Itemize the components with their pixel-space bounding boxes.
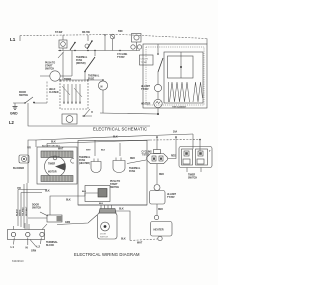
svg-text:CLOSED: CLOSED (49, 92, 59, 94)
svg-text:HI-LIMIT: HI-LIMIT (167, 194, 177, 196)
svg-text:BLK: BLK (99, 203, 104, 205)
svg-text:T'STAT: T'STAT (142, 154, 150, 157)
connector c (71, 158, 74, 163)
svg-text:FUSE: FUSE (76, 60, 83, 62)
svg-text:WHT: WHT (137, 243, 143, 245)
console bottom wire (78, 204, 147, 206)
svg-text:SWITCH: SWITCH (19, 95, 28, 97)
svg-text:PUSH TO: PUSH TO (45, 63, 55, 65)
wire door sw riser (50, 196, 85, 215)
push to start switch (85, 186, 110, 202)
svg-text:T'STAT: T'STAT (117, 56, 125, 59)
svg-text:BLK: BLK (51, 142, 56, 144)
switch blade centre (85, 57, 95, 71)
svg-text:DOOR: DOOR (100, 234, 107, 236)
timer motor contacts (82, 109, 92, 116)
svg-text:THERMAL: THERMAL (129, 167, 141, 170)
svg-text:PUSH TO: PUSH TO (110, 181, 120, 183)
svg-text:50M: 50M (118, 31, 123, 33)
coil bracket left (167, 82, 169, 102)
svg-text:ST-SW: ST-SW (55, 32, 63, 34)
svg-text:TERMINAL: TERMINAL (46, 241, 58, 244)
svg-text:START: START (45, 65, 53, 68)
svg-text:BLOWER: BLOWER (13, 167, 24, 170)
svg-text:YEL/RED: YEL/RED (23, 207, 25, 216)
motor terminal strip bottom (41, 176, 73, 182)
thermal fuse 2 (113, 161, 125, 173)
wire door sw to drum sw (57, 215, 97, 225)
wire blower riser (28, 140, 36, 183)
svg-text:MOTOR: MOTOR (48, 172, 57, 174)
switch S1 (59, 40, 67, 48)
svg-text:CYCLING: CYCLING (117, 54, 128, 56)
wire tstat down (156, 164, 158, 184)
hi-limit tstat (154, 185, 160, 191)
svg-text:FUSE: FUSE (129, 171, 136, 173)
wire w2 (47, 140, 150, 144)
svg-text:BLK: BLK (121, 239, 126, 241)
svg-text:ELECTRICAL WIRING DIAGRAM: ELECTRICAL WIRING DIAGRAM (74, 252, 140, 257)
heater element coils (170, 82, 190, 102)
svg-text:DOOR: DOOR (19, 92, 26, 94)
drive motor circle (45, 156, 66, 177)
terminal wires (25, 223, 29, 230)
timer contact box T (60, 81, 88, 109)
wire heater to door box (130, 239, 158, 241)
motor terminal strip top (41, 151, 73, 158)
svg-text:HELD: HELD (49, 89, 56, 91)
svg-text:BLK: BLK (101, 150, 106, 152)
svg-text:START: START (110, 183, 118, 186)
svg-text:T'STAT: T'STAT (141, 88, 149, 91)
svg-text:WHITE: WHITE (20, 209, 22, 216)
wire drop C (104, 35, 106, 51)
start contact circle (110, 34, 115, 39)
ground (14, 103, 16, 106)
svg-text:CYCL'G: CYCL'G (141, 59, 149, 61)
svg-text:Y/R: Y/R (27, 148, 31, 150)
svg-text:HEATER: HEATER (154, 229, 164, 232)
svg-text:30A: 30A (173, 131, 178, 134)
wire right feeders (193, 134, 200, 151)
wire oval to tstat (127, 160, 146, 164)
svg-text:M: M (101, 87, 103, 89)
drive motor box (37, 147, 77, 184)
svg-text:RED: RED (158, 209, 163, 211)
svg-text:RED: RED (159, 174, 164, 176)
drops to fuses (95, 140, 120, 156)
svg-text:RED/WHT: RED/WHT (26, 206, 28, 216)
console box (78, 141, 147, 206)
wire junction to heater column (100, 113, 158, 114)
svg-text:(DRYER): (DRYER) (76, 63, 86, 65)
door switch body (47, 215, 62, 222)
svg-text:BLK: BLK (113, 137, 118, 139)
svg-text:SWITCH: SWITCH (110, 187, 119, 189)
svg-text:L1: L1 (11, 245, 15, 249)
svg-text:WHT: WHT (58, 149, 64, 151)
svg-text:SWITCH: SWITCH (45, 69, 54, 71)
timer motor TM (62, 114, 77, 124)
harness horizontals (18, 190, 47, 193)
svg-text:BLACK: BLACK (15, 208, 18, 216)
svg-text:DR-SW: DR-SW (82, 32, 91, 34)
wire w1 top of wiring diagram (36, 134, 193, 140)
motor switch wedge (55, 163, 66, 171)
wire top L1 rail (19, 36, 21, 42)
motor switch M contacts (131, 45, 135, 49)
svg-text:RED: RED (171, 156, 176, 158)
svg-text:ELECTRICAL SCHEMATIC: ELECTRICAL SCHEMATIC (93, 127, 147, 132)
heater housing (164, 52, 203, 103)
svg-text:TIMER: TIMER (188, 175, 195, 177)
svg-text:WHT: WHT (86, 150, 91, 152)
svg-text:GRN: GRN (31, 251, 36, 253)
svg-text:L2: L2 (37, 245, 41, 249)
switch blade left (58, 52, 64, 59)
svg-text:THERMAL: THERMAL (76, 56, 88, 59)
wire mid rail (58, 50, 140, 52)
wire motor feed (71, 51, 73, 77)
terminal block (8, 230, 45, 240)
switch blade S2 (70, 43, 75, 51)
svg-text:DOOR: DOOR (32, 205, 39, 207)
heater box outer (143, 44, 207, 108)
svg-text:RED: RED (130, 158, 135, 160)
buzzer B1 (132, 34, 142, 43)
harness verticals (18, 183, 27, 229)
svg-text:L2: L2 (9, 120, 15, 125)
motor M2 (98, 81, 107, 90)
door switch S3 (85, 44, 89, 48)
svg-text:SWITCH: SWITCH (32, 208, 41, 210)
svg-text:FUSE: FUSE (79, 160, 86, 162)
wire L2 rail (28, 103, 150, 126)
svg-text:BLK: BLK (82, 191, 87, 193)
svg-text:SWITCH: SWITCH (100, 237, 108, 239)
heater body (151, 222, 173, 237)
svg-text:T'STAT: T'STAT (141, 61, 148, 64)
motor M1 circle (50, 71, 60, 81)
thermal fuse 1 (91, 162, 101, 173)
cycling stat label box (140, 55, 154, 65)
wire dashed drop (46, 82, 48, 104)
cycling tstat body (147, 154, 168, 164)
svg-text:L1: L1 (10, 37, 16, 42)
svg-text:HTR ELEMENT: HTR ELEMENT (172, 107, 187, 109)
svg-text:SWITCH: SWITCH (188, 178, 197, 180)
heater box dashed (146, 47, 204, 105)
timer switch assembly (179, 147, 212, 168)
svg-text:HEATER: HEATER (141, 103, 151, 106)
wire drop B (87, 35, 89, 41)
wire drop A (62, 35, 64, 40)
svg-text:T'STAT: T'STAT (167, 196, 175, 199)
drum door switch (98, 213, 118, 239)
svg-text:BLOCK: BLOCK (46, 245, 55, 247)
svg-text:HI-LIMIT: HI-LIMIT (141, 86, 151, 88)
svg-text:THERMAL: THERMAL (79, 156, 91, 159)
svg-text:TIMER: TIMER (48, 164, 55, 166)
wire branch x63 (62, 52, 64, 80)
svg-text:GND: GND (10, 112, 18, 116)
wire to heater (156, 204, 158, 215)
svg-text:THERMAL: THERMAL (88, 75, 100, 78)
switch blade heater (157, 44, 159, 54)
svg-text:(HEATER): (HEATER) (79, 162, 90, 165)
svg-text:N: N (26, 246, 28, 250)
grn wire (30, 240, 37, 248)
svg-text:BLK: BLK (66, 200, 71, 202)
svg-text:63409610: 63409610 (12, 259, 24, 263)
blower (19, 155, 29, 163)
wire bus above timer (60, 79, 103, 81)
svg-text:BLK: BLK (119, 209, 124, 211)
svg-text:BLK: BLK (45, 191, 50, 193)
svg-text:GRN: GRN (65, 222, 70, 224)
wire tstat right (168, 137, 176, 159)
